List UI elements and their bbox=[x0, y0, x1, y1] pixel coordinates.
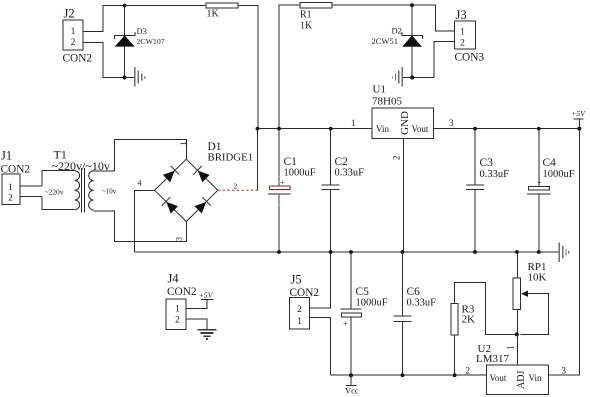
wire bridge node 4 down to ground rail bbox=[135, 190, 155, 252]
svg-text:C6: C6 bbox=[407, 286, 421, 298]
svg-text:R1: R1 bbox=[300, 10, 312, 21]
svg-text:3: 3 bbox=[449, 118, 454, 128]
svg-text:10K: 10K bbox=[528, 272, 547, 284]
capacitor C1 1000uF bbox=[268, 129, 316, 252]
svg-text:2CW51: 2CW51 bbox=[372, 36, 398, 46]
svg-text:Vin: Vin bbox=[529, 373, 542, 383]
svg-text:2: 2 bbox=[175, 316, 180, 326]
svg-text:J2: J2 bbox=[64, 7, 75, 21]
svg-text:ADJ: ADJ bbox=[516, 371, 527, 389]
svg-text:C2: C2 bbox=[335, 156, 349, 168]
wire bridge output node 2 (red dashed) bbox=[218, 189, 258, 191]
node U1 gnd / C6 top bbox=[401, 250, 405, 254]
svg-text:C3: C3 bbox=[480, 157, 494, 169]
node C3 gnd bbox=[473, 250, 477, 254]
svg-text:1000uF: 1000uF bbox=[356, 298, 388, 309]
svg-text:0.33uF: 0.33uF bbox=[335, 168, 365, 179]
zener diode D2 2CW51 bbox=[372, 5, 423, 77]
svg-text:Vcc: Vcc bbox=[345, 386, 359, 396]
node RP1 wiper / ADJ junction bbox=[515, 332, 519, 336]
wire bridge output up to main rail bbox=[257, 129, 259, 191]
wire J2 pin1 to top rail bbox=[83, 6, 206, 32]
svg-text:78H05: 78H05 bbox=[372, 96, 402, 108]
connector J5 bbox=[290, 273, 320, 330]
bridge diode top-left bbox=[162, 166, 179, 183]
node C4 gnd bbox=[537, 250, 541, 254]
svg-text:CON3: CON3 bbox=[455, 52, 485, 64]
svg-text:BRIDGE1: BRIDGE1 bbox=[208, 152, 254, 164]
svg-text:CON2: CON2 bbox=[63, 53, 93, 65]
wire J4 pin1 to +5V bbox=[186, 300, 207, 309]
bridge diode top-right bbox=[193, 166, 210, 183]
svg-text:CON2: CON2 bbox=[1, 164, 31, 176]
ground (earth, right-facing) at rail end bbox=[559, 243, 568, 262]
zener diode D3 2CW107 bbox=[115, 6, 165, 78]
svg-text:1: 1 bbox=[460, 28, 465, 38]
svg-text:2: 2 bbox=[392, 155, 402, 160]
wire top to J3 pin1 bbox=[412, 5, 455, 31]
svg-text:Vout: Vout bbox=[412, 124, 429, 134]
node C3 rail bbox=[473, 127, 477, 131]
svg-text:1: 1 bbox=[175, 305, 180, 315]
node junction D2 ground bbox=[410, 76, 414, 80]
capacitor C5 1000uF bbox=[341, 252, 388, 375]
svg-text:1: 1 bbox=[506, 345, 516, 350]
svg-text:+5V: +5V bbox=[571, 109, 586, 118]
svg-text:CON2: CON2 bbox=[290, 287, 320, 299]
svg-text:J5: J5 bbox=[291, 273, 302, 287]
svg-text:1K: 1K bbox=[207, 9, 220, 20]
node C6 bottom bbox=[401, 373, 405, 377]
node C4 rail bbox=[537, 127, 541, 131]
node bridge+rail bbox=[256, 127, 260, 131]
capacitor C6 0.33uF bbox=[394, 252, 437, 375]
resistor R3 2K bbox=[451, 283, 517, 376]
wire secondary bottom to bridge node 3 bbox=[94, 211, 187, 242]
node junction D3 ground bbox=[123, 76, 127, 80]
svg-text:2: 2 bbox=[71, 38, 76, 48]
node C1 rail bbox=[277, 127, 281, 131]
svg-text:1: 1 bbox=[351, 118, 356, 128]
svg-text:GND: GND bbox=[399, 111, 411, 135]
wire J1 pin2 stub bbox=[20, 196, 42, 198]
power Vcc symbol bbox=[345, 375, 359, 395]
svg-text:2: 2 bbox=[234, 182, 238, 191]
svg-text:3: 3 bbox=[175, 237, 184, 241]
ground (earth, right-facing) near D3 bbox=[135, 67, 145, 87]
svg-text:C5: C5 bbox=[356, 286, 370, 298]
svg-text:U1: U1 bbox=[373, 84, 386, 96]
node +5V rail corner bbox=[577, 127, 581, 131]
svg-text:2K: 2K bbox=[462, 314, 476, 326]
svg-text:1: 1 bbox=[8, 183, 13, 193]
svg-text:2: 2 bbox=[460, 38, 465, 48]
svg-text:3: 3 bbox=[562, 366, 567, 376]
connector J4 bbox=[166, 272, 197, 330]
wire J5 pin2 up to ground rail bbox=[310, 252, 331, 308]
svg-text:1000uF: 1000uF bbox=[543, 169, 575, 180]
wire J1 pin1 stub bbox=[20, 185, 42, 187]
wire secondary top to bridge node 1 bbox=[94, 139, 187, 170]
node C1 gnd bbox=[277, 250, 281, 254]
power +5V (top right) bbox=[571, 109, 586, 129]
wire main +rail left bbox=[258, 128, 373, 130]
svg-text:J1: J1 bbox=[1, 149, 12, 163]
node junction D3 top bbox=[123, 4, 127, 8]
svg-text:Vout: Vout bbox=[490, 373, 507, 383]
svg-text:4: 4 bbox=[138, 178, 142, 187]
regulator U2 LM317 bbox=[476, 343, 549, 394]
node C2 rail bbox=[329, 127, 333, 131]
wire ground node to J3 pin2 bbox=[412, 42, 454, 78]
svg-text:2CW107: 2CW107 bbox=[137, 37, 165, 46]
wire R1 left drop from rail bbox=[279, 5, 300, 128]
wire J5 pin1 down to bottom rail bbox=[310, 318, 331, 376]
svg-text:Vin: Vin bbox=[376, 124, 389, 134]
resistor R1 1K bbox=[300, 3, 332, 32]
node junction D2 top bbox=[410, 3, 414, 7]
svg-text:+: + bbox=[343, 318, 348, 328]
wire R1 to D2/J3 bbox=[332, 4, 412, 6]
svg-text:2: 2 bbox=[466, 366, 471, 376]
wire bottom rail bbox=[331, 374, 487, 376]
potentiometer RP1 10K bbox=[513, 252, 548, 334]
svg-text:0.33uF: 0.33uF bbox=[407, 298, 437, 309]
wire U2 Vin to +5V right edge riser bbox=[549, 129, 580, 376]
transformer T1 bbox=[42, 148, 117, 213]
node Vcc bbox=[349, 373, 353, 377]
ground (earth, left-facing) near D2 bbox=[393, 67, 403, 87]
wire ground rail bbox=[135, 251, 560, 253]
svg-text:1: 1 bbox=[297, 317, 302, 327]
svg-text:~10v: ~10v bbox=[102, 188, 117, 196]
svg-text:1000uF: 1000uF bbox=[284, 168, 316, 179]
svg-text:1: 1 bbox=[179, 142, 188, 146]
svg-text:J3: J3 bbox=[456, 8, 467, 22]
wire to ground stub left bbox=[403, 77, 412, 79]
svg-text:0.33uF: 0.33uF bbox=[480, 169, 510, 180]
wire ADJ junction down to U2 bbox=[516, 334, 518, 364]
regulator U1 78H05 bbox=[372, 84, 434, 139]
node C2 gnd bbox=[329, 250, 333, 254]
wire main +5V rail right of U1 bbox=[434, 128, 580, 130]
connector J1 bbox=[1, 149, 31, 205]
wire U1 GND pin down to ground rail bbox=[403, 138, 405, 252]
ground (earth, down-facing) at J4 bbox=[198, 330, 217, 339]
node RP1 top bbox=[515, 250, 519, 254]
svg-text:+: + bbox=[537, 177, 542, 187]
wire J4 pin2 to ground bbox=[186, 319, 207, 330]
svg-text:+5V: +5V bbox=[199, 291, 214, 300]
power +5V (J4) bbox=[199, 291, 214, 300]
bridge rectifier D1 BRIDGE1 bbox=[155, 141, 253, 222]
wire J2 pin2 to ground node bbox=[83, 43, 125, 78]
svg-text:LM317: LM317 bbox=[476, 353, 510, 365]
wire top rail right of resistor to R1-column drop bbox=[238, 6, 258, 129]
svg-text:1K: 1K bbox=[300, 21, 313, 32]
capacitor C2 0.33uF bbox=[322, 129, 364, 252]
svg-text:2: 2 bbox=[8, 194, 13, 204]
svg-text:1: 1 bbox=[71, 27, 76, 37]
svg-text:2: 2 bbox=[297, 305, 302, 315]
svg-text:~220v: ~220v bbox=[45, 188, 64, 197]
svg-text:D3: D3 bbox=[137, 26, 147, 36]
node R3 bottom bbox=[453, 373, 457, 377]
wire to ground stub bbox=[125, 77, 135, 79]
node C5 top bbox=[349, 250, 353, 254]
connector J2 bbox=[63, 7, 93, 65]
bridge diode bottom-right bbox=[194, 197, 211, 214]
svg-text:CON2: CON2 bbox=[167, 286, 197, 298]
svg-text:D2: D2 bbox=[392, 26, 402, 36]
bridge diode bottom-left bbox=[162, 197, 179, 214]
connector J3 bbox=[455, 8, 485, 64]
svg-text:+: + bbox=[280, 177, 285, 187]
resistor 1K (top-left) bbox=[206, 3, 238, 20]
capacitor C3 0.33uF bbox=[466, 129, 509, 252]
svg-text:C1: C1 bbox=[284, 156, 298, 168]
capacitor C4 1000uF bbox=[527, 129, 575, 252]
svg-text:C4: C4 bbox=[543, 157, 557, 169]
svg-text:J4: J4 bbox=[168, 272, 180, 286]
